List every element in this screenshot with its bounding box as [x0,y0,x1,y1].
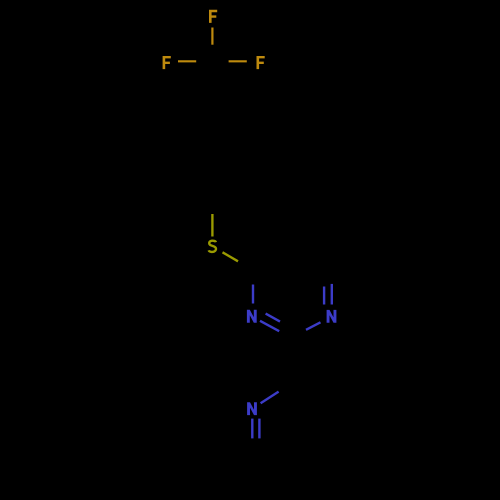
bond C4-N3 pyrimidine (N-colored half) [252,285,254,304]
bond C-F top (F-colored half) [211,28,213,45]
bond N1-C2 pyrimidine (N-colored half) [306,322,321,330]
atom label N1 (pyrimidine right nitrogen) [327,310,337,323]
atom label N3 (pyrimidine left nitrogen) [247,310,257,323]
bond C-F left (F-colored half) [178,60,196,62]
atom label F (top fluorine of CF3) [209,10,217,23]
double bond C6=N1 outer line (N-colored half) [331,284,333,305]
atom label F (right fluorine of CF3) [257,56,265,69]
atom label S (thioether sulfur) [209,241,216,252]
atom label N1' (pyridine nitrogen) [247,402,257,415]
double bond N3=C2 inner line (N-colored half) [266,314,280,322]
atom label F (left fluorine of CF3) [163,56,171,69]
double bond N1'=C6' outer line (N-colored half) [251,419,253,439]
bond S-C4(pyrimidine) diagonal (S-colored half) [223,252,239,261]
bond S-C(phenyl para) vertical (S-colored half) [211,214,213,237]
bond C-F right (F-colored half) [229,60,247,62]
bond N1'-C2' pyridine (N-colored half) [261,392,279,404]
double bond C6=N1 inner line (N-colored half) [323,287,325,305]
double bond N1'=C6' inner line (N-colored half) [258,419,260,439]
double bond N3=C2 outer line (N-colored half) [260,321,279,331]
